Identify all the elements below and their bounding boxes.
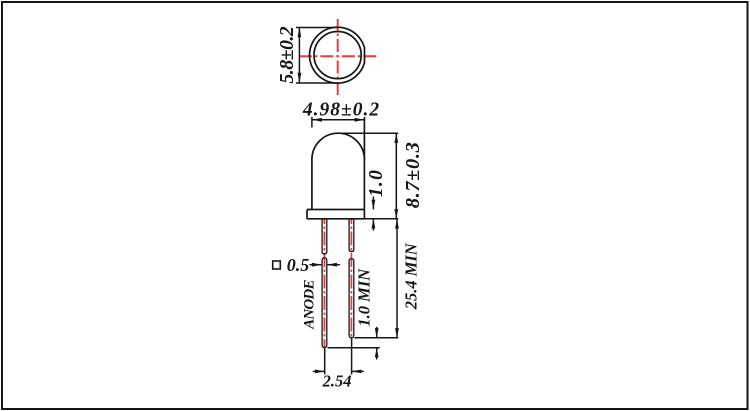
lead right upper fill	[349, 219, 354, 252]
dim 5.8 arrow down	[298, 73, 302, 83]
lead right lower fill	[349, 259, 354, 338]
top view: outer flange circle with right flat	[309, 27, 364, 83]
dim 2.54 right arrow	[352, 370, 364, 372]
svg-text:1.0 MIN: 1.0 MIN	[355, 268, 374, 327]
svg-text:8.7±0.3: 8.7±0.3	[402, 142, 424, 209]
body right edge + 4.98 right extension line	[363, 117, 365, 219]
svg-text:2.54: 2.54	[322, 372, 352, 391]
dim 4.98 arrow left	[312, 118, 322, 122]
flange bottom line	[307, 218, 364, 220]
dim 4.98 arrow right	[355, 118, 365, 122]
dim 2.54 left extension line	[324, 348, 326, 375]
dim 1.0 flange upper arrow	[372, 197, 374, 210]
lead left upper segment outline	[322, 219, 327, 254]
dim 8.7 arrow up	[394, 133, 398, 143]
LED body left edge	[311, 160, 313, 210]
dim 8.7 dimension line	[395, 133, 397, 219]
svg-text:25.4 MIN: 25.4 MIN	[402, 242, 421, 310]
dim 1.0 flange lower arrow	[372, 219, 374, 231]
dim 0.5 right arrow	[327, 264, 340, 266]
dim 5.8 arrow up	[298, 28, 302, 38]
dim 2.54 right extension line	[351, 338, 353, 375]
dim 0.5 left arrow	[310, 264, 322, 266]
top view: centerline vertical (red)	[337, 19, 339, 96]
dim 1.0 MIN upper arrow	[376, 327, 378, 338]
dim 1.0 MIN lower arrow	[376, 348, 378, 360]
svg-text:0.5: 0.5	[287, 255, 310, 275]
svg-text:1.0: 1.0	[366, 169, 387, 197]
lead left lower fill	[322, 258, 327, 348]
svg-text:5.8±0.2: 5.8±0.2	[276, 26, 298, 83]
LED dome arc	[312, 133, 365, 159]
svg-text:ANODE: ANODE	[302, 280, 318, 330]
flange top line	[307, 209, 364, 211]
square symbol for 0.5	[273, 261, 281, 269]
flange bottom right extension line	[364, 218, 398, 220]
dim 25.4 arrow down	[395, 328, 399, 338]
dim 25.4 arrow up	[395, 219, 399, 229]
dim 4.98 dimension line	[312, 119, 364, 121]
svg-text:4.98±0.2: 4.98±0.2	[302, 100, 380, 121]
dim 5.8 bottom extension line	[296, 82, 338, 84]
dim 25.4 dimension line	[396, 219, 398, 338]
dim 4.98 left extension line	[311, 117, 313, 128]
dim 5.8 dimension line	[298, 28, 300, 84]
lead right upper segment outline	[349, 219, 354, 252]
dim 8.7 top extension line	[338, 132, 399, 134]
lead left lower segment outline	[322, 258, 327, 348]
right lead bottom extension line	[354, 337, 398, 339]
lead left upper fill	[322, 219, 327, 254]
lead right lower segment outline	[349, 259, 354, 338]
lead left red centerline	[323, 219, 325, 347]
dim 5.8 top extension line	[296, 27, 338, 29]
dim 2.54 left arrow	[313, 370, 325, 372]
top view: centerline horizontal (red)	[297, 55, 377, 57]
flange left edge	[306, 210, 308, 219]
lead right red centerline	[350, 219, 352, 338]
top view: inner lens circle	[314, 31, 361, 78]
dim 8.7 arrow down	[394, 209, 398, 219]
left lead bottom extension line	[328, 347, 380, 349]
